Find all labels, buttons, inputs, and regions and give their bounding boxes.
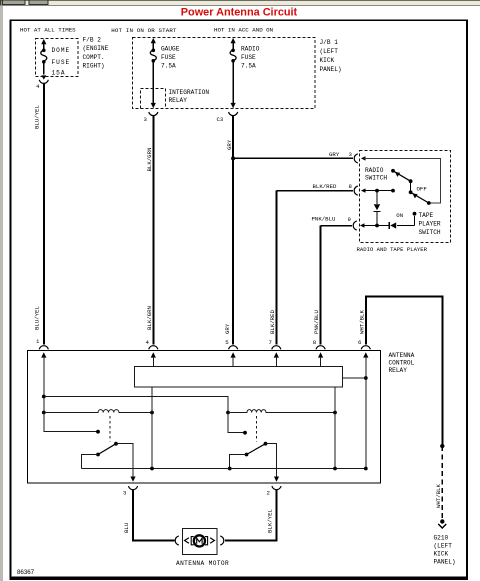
svg-text:1: 1 xyxy=(36,338,40,345)
motor M1 antenna motor box xyxy=(183,529,218,555)
wire pin 1 feed to right coil xyxy=(44,397,228,413)
svg-text:FUSE: FUSE xyxy=(241,54,256,61)
connector pin C3 below J/B 1 xyxy=(229,112,238,116)
node right coil right junction xyxy=(333,411,337,415)
node rail junction right module xyxy=(333,467,337,471)
pin 4 connector at relay xyxy=(149,346,158,358)
relay U integration relay dashed outline xyxy=(141,89,166,109)
svg-text:9: 9 xyxy=(348,216,352,223)
node right switch rail junction xyxy=(228,467,232,471)
svg-text:BLK/YEL: BLK/YEL xyxy=(267,509,274,533)
svg-text:8: 8 xyxy=(349,183,353,190)
svg-text:GRY: GRY xyxy=(224,323,231,334)
svg-text:BLU/YEL: BLU/YEL xyxy=(33,105,40,129)
svg-text:DOME: DOME xyxy=(52,47,71,54)
svg-text:RIGHT): RIGHT) xyxy=(83,62,105,69)
wire BLU to motor xyxy=(133,490,175,540)
node right switch upper contact xyxy=(243,431,247,435)
svg-text:BLU/YEL: BLU/YEL xyxy=(33,306,40,330)
ground G210 xyxy=(438,519,446,528)
wire module right output vertical xyxy=(334,387,336,469)
wire GRY horizontal to radio xyxy=(233,157,353,159)
wire WHT/BLK dashed to ground xyxy=(441,446,443,521)
fuse RADIO 7.5A symbol xyxy=(230,38,236,108)
svg-text:RELAY: RELAY xyxy=(169,97,188,104)
wire right switch to pin 2 xyxy=(266,444,277,480)
wire pin 8 internal vertical xyxy=(320,357,322,367)
node pin 1 branch junction xyxy=(42,395,46,399)
svg-text:PANEL): PANEL) xyxy=(320,66,342,73)
frame thick bottom edge xyxy=(10,577,468,581)
svg-text:BLK/RED: BLK/RED xyxy=(313,183,337,190)
wire PNK/BLU inside radio xyxy=(363,225,389,227)
wire BLK/RED vertical xyxy=(275,191,277,345)
svg-text:WHT/BLK: WHT/BLK xyxy=(358,310,365,334)
pin 6 connector at relay xyxy=(361,346,370,358)
fuse GAUGE 7.5A symbol xyxy=(150,38,156,108)
wire GRY vertical xyxy=(232,116,234,345)
pin 1 connector at relay xyxy=(39,346,48,358)
left grey margin strip xyxy=(0,6,3,581)
svg-text:GRY: GRY xyxy=(329,151,340,158)
wire right switch upper contact branch xyxy=(228,413,245,433)
wire PNK/BLU vertical xyxy=(320,226,322,345)
svg-text:OFF: OFF xyxy=(417,186,428,193)
node left switch upper contact xyxy=(96,430,100,434)
switch right relay contacts arm xyxy=(245,442,268,457)
wire pin 4 internal vertical xyxy=(152,357,154,367)
svg-text:COMPT.: COMPT. xyxy=(83,54,105,61)
wire BLU/YEL vertical xyxy=(43,84,45,345)
motor symbol M with brushes xyxy=(191,535,207,546)
svg-text:5: 5 xyxy=(225,339,229,346)
svg-text:KICK: KICK xyxy=(434,551,449,558)
svg-text:PNK/BLU: PNK/BLU xyxy=(312,216,336,223)
svg-text:PANEL): PANEL) xyxy=(434,559,456,566)
wire pin 5 internal vertical xyxy=(232,357,234,367)
svg-text:HOT IN ON OR START: HOT IN ON OR START xyxy=(111,27,177,34)
svg-text:RADIO: RADIO xyxy=(241,45,260,52)
svg-text:SWITCH: SWITCH xyxy=(419,229,441,236)
svg-text:3: 3 xyxy=(144,116,148,123)
wire BLK/GRN vertical xyxy=(152,116,154,345)
node WHT/BLK splice xyxy=(440,444,444,448)
svg-text:ANTENNA MOTOR: ANTENNA MOTOR xyxy=(176,560,229,567)
svg-text:7.5A: 7.5A xyxy=(161,62,176,69)
svg-text:RADIO: RADIO xyxy=(365,167,384,174)
node right coil left junction xyxy=(226,411,230,415)
connector pin 3 below J/B 1 xyxy=(149,112,158,116)
coil L1 left relay coil xyxy=(44,410,152,413)
switch S2 tape player switch xyxy=(413,212,417,226)
node PNK/BLU junction xyxy=(375,224,379,228)
diode D2 horizontal xyxy=(389,222,414,229)
svg-text:WHT/BLK: WHT/BLK xyxy=(435,484,442,508)
svg-text:8: 8 xyxy=(313,339,317,346)
svg-text:BLK/GRN: BLK/GRN xyxy=(146,148,153,172)
pin 3 connector at relay bottom xyxy=(128,486,137,490)
svg-text:BLK/GRN: BLK/GRN xyxy=(146,306,153,330)
svg-text:4: 4 xyxy=(36,83,40,90)
node left coil left junction xyxy=(42,411,46,415)
toolbar lower divider line xyxy=(0,5,480,6)
radio and tape player dashed outline xyxy=(360,151,451,243)
svg-text:FUSE: FUSE xyxy=(161,54,176,61)
svg-text:(LEFT: (LEFT xyxy=(320,48,339,55)
diode D1 vertical xyxy=(374,191,381,226)
toolbar button 1 xyxy=(3,0,25,4)
svg-text:PLAYER: PLAYER xyxy=(419,221,441,228)
connector at motor left xyxy=(175,536,189,545)
svg-text:FUSE: FUSE xyxy=(52,59,71,66)
linkage left coil to switch (dashed) xyxy=(109,416,111,442)
connector pin 4 below dome fuse box xyxy=(39,75,48,83)
wire BLK/RED inside radio xyxy=(364,190,393,192)
linkage right coil to switch (dashed) xyxy=(256,416,258,442)
wire GRY inside radio xyxy=(364,158,441,203)
svg-text:KICK: KICK xyxy=(320,57,335,64)
pin 5 connector at relay xyxy=(229,346,238,358)
svg-text:6: 6 xyxy=(358,339,362,346)
svg-text:CONTROL: CONTROL xyxy=(389,360,415,367)
svg-text:TAPE: TAPE xyxy=(419,212,434,219)
svg-text:RELAY: RELAY xyxy=(389,367,408,374)
wire BLK/RED horizontal xyxy=(276,190,353,192)
wire right switch common to rail xyxy=(230,455,247,469)
wire left switch upper contact branch xyxy=(44,413,98,432)
svg-text:GRY: GRY xyxy=(226,139,233,150)
svg-text:HOT IN ACC AND ON: HOT IN ACC AND ON xyxy=(214,27,274,34)
svg-text:3: 3 xyxy=(123,489,127,496)
node BLK/RED junction xyxy=(375,189,379,193)
wire module left output vertical xyxy=(151,387,153,469)
svg-text:ANTENNA: ANTENNA xyxy=(389,352,415,359)
switch left relay contacts arm xyxy=(96,442,118,457)
fuse DOME 15A symbol xyxy=(41,39,47,74)
relay internal control module box xyxy=(135,367,343,388)
wire left switch common to rail xyxy=(82,455,99,469)
svg-text:ON: ON xyxy=(396,212,403,219)
pin 2 connector at relay bottom xyxy=(272,486,281,490)
wire PNK/BLU horizontal xyxy=(321,225,353,227)
svg-text:BLK/RED: BLK/RED xyxy=(269,310,276,334)
node pin 6 stub junction xyxy=(364,376,368,380)
wire pin 6 internal vertical xyxy=(365,357,367,469)
svg-text:HOT AT ALL TIMES: HOT AT ALL TIMES xyxy=(20,27,76,34)
node rail junction pin 6 xyxy=(364,467,368,471)
svg-text:GAUGE: GAUGE xyxy=(161,45,180,52)
toolbar strip background xyxy=(0,0,480,6)
svg-text:86367: 86367 xyxy=(17,569,35,576)
svg-text:4: 4 xyxy=(146,339,150,346)
svg-text:2: 2 xyxy=(267,489,271,496)
coil L2 right relay coil xyxy=(228,410,335,413)
svg-text:7.5A: 7.5A xyxy=(241,62,256,69)
svg-text:(ENGINE: (ENGINE xyxy=(83,45,109,52)
svg-text:PNK/BLU: PNK/BLU xyxy=(313,310,320,334)
svg-text:G210: G210 xyxy=(434,535,449,542)
fuse box F/B 2 dashed outline xyxy=(36,39,79,77)
wire bottom rail xyxy=(82,468,366,470)
wire left switch to pin 3 xyxy=(116,444,133,480)
svg-text:7: 7 xyxy=(269,339,272,346)
svg-text:C3: C3 xyxy=(217,116,224,123)
svg-text:Power Antenna Circuit: Power Antenna Circuit xyxy=(181,7,298,19)
svg-text:RADIO AND TAPE PLAYER: RADIO AND TAPE PLAYER xyxy=(357,246,428,253)
svg-text:3: 3 xyxy=(349,151,353,158)
node GRY tap junction xyxy=(231,156,235,160)
wire module stub to pin 6 xyxy=(343,377,366,379)
switch S1 radio switch xyxy=(391,169,431,205)
junction box J/B 1 dashed outline xyxy=(133,38,316,109)
svg-text:BLU: BLU xyxy=(123,522,130,533)
relay K1 antenna control relay box xyxy=(28,351,381,484)
pin 7 connector at relay xyxy=(272,346,281,358)
toolbar button 2 xyxy=(29,0,48,4)
svg-text:(LEFT: (LEFT xyxy=(434,543,453,550)
connector at motor right xyxy=(210,536,224,545)
svg-text:15A: 15A xyxy=(52,69,66,76)
node BLK/RED stub end xyxy=(391,189,395,193)
svg-text:INTEGRATION: INTEGRATION xyxy=(169,89,210,96)
wire pin 1 internal vertical xyxy=(43,357,45,413)
svg-text:J/B 1: J/B 1 xyxy=(320,39,339,46)
pin 8 connector at relay xyxy=(316,346,325,358)
wire BLK/YEL to motor xyxy=(225,490,277,540)
node left coil right junction xyxy=(150,411,154,415)
wire pin 7 internal vertical xyxy=(275,357,277,367)
node rail junction left module xyxy=(150,467,154,471)
wire WHT/BLK from relay pin 6 up and right xyxy=(366,297,443,447)
svg-text:F/B 2: F/B 2 xyxy=(83,37,102,44)
svg-text:SWITCH: SWITCH xyxy=(365,175,387,182)
